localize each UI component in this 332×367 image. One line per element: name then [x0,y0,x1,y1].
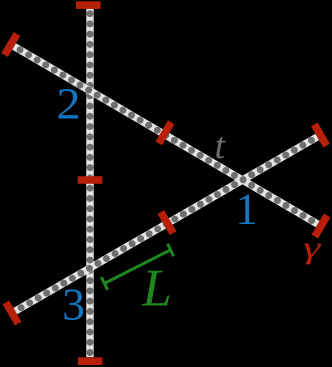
diagonal string B bottom-left end cap [3,300,22,325]
node label 2 (blue numeral) [59,89,78,118]
diagonal string A bottom-right end cap [312,214,331,239]
vertical string band [86,9,93,357]
vertical string bottom end cap [78,357,103,365]
diagonal string A top-left end cap [1,32,20,57]
diagonal string B dots [18,137,315,312]
label gamma (red italic) [304,244,321,265]
length marker L dimension line [101,244,173,290]
vertical string midpoint tick [78,176,103,184]
vertical string top end cap [76,1,101,9]
node label 3 (blue numeral) [64,289,83,320]
node label 1 (blue numeral) [239,195,255,224]
diagonal string B top-right end cap [311,122,330,147]
vertical string dots [87,10,94,356]
diagonal string A midpoint tick [156,120,175,145]
label L (green italic) [142,271,170,306]
diagonal string A dots [17,46,316,224]
diagonal string B midpoint tick [158,210,177,235]
label t (gray italic) [216,137,226,159]
diagonal string A band (top-left to bottom-right) [14,46,318,224]
diagonal string B band (bottom-left to top-right) [15,137,317,311]
